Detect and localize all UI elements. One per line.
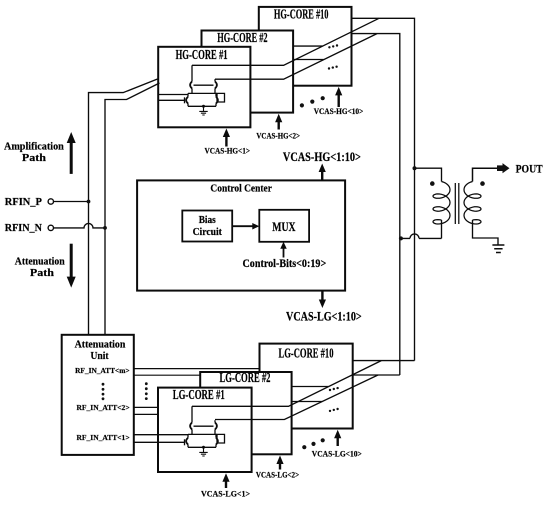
svg-text:Bias: Bias	[199, 215, 216, 226]
wire: attenuation pair m (upper)	[134, 368, 260, 370]
wire: source rail	[188, 105, 216, 107]
svg-text:VCAS-HG<1:10>: VCAS-HG<1:10>	[283, 149, 361, 164]
phase dot primary	[430, 181, 435, 186]
wire: input 2 into cell	[134, 441, 185, 443]
wire: output-1 drain stub	[191, 65, 193, 81]
svg-text:Unit: Unit	[91, 351, 110, 362]
svg-text:VCAS-LG<10>: VCAS-LG<10>	[312, 448, 362, 458]
svg-text:RFIN_N: RFIN_N	[5, 223, 43, 234]
wire: LG core2 output stub 1	[292, 386, 329, 388]
wire: RFIN_P lead	[54, 201, 89, 203]
wire: output-2 drain stub	[214, 79, 216, 81]
ground	[199, 106, 207, 115]
transistor input right	[216, 438, 218, 445]
node: primary bottom tap on bus B	[399, 236, 403, 240]
arrow: VCAS-LG<10> into core10	[337, 437, 339, 446]
LG-CORE #10 box	[260, 344, 353, 429]
ground	[199, 447, 207, 456]
ellipsis dots (HG outputs lower)	[328, 66, 338, 70]
svg-text:VCAS-LG<2>: VCAS-LG<2>	[256, 470, 299, 480]
arrow: VCAS-LG bus down from control center	[321, 291, 323, 301]
ellipsis dots (LG outputs upper)	[329, 387, 339, 391]
wire: output-2 drain stub	[214, 420, 216, 422]
wire: output-1 drain stub	[191, 406, 193, 422]
svg-text:Attenuation: Attenuation	[75, 339, 126, 350]
node: tail junction	[202, 446, 205, 449]
transistor input left	[186, 97, 188, 104]
svg-text:Circuit: Circuit	[193, 227, 223, 238]
transistor cascode right	[215, 423, 217, 430]
terminal RFIN_P	[48, 199, 53, 204]
arrow: control bits into MUX	[283, 248, 285, 258]
arrow: VCAS-HG<1> into core1	[225, 136, 227, 147]
MUX box	[259, 210, 309, 242]
node: RFIN_P junction	[87, 200, 91, 204]
svg-text:RF_IN_ATT<m>: RF_IN_ATT<m>	[75, 366, 130, 375]
wire: mid rail	[188, 92, 217, 94]
HG-CORE #1 box	[158, 47, 250, 128]
wire: HG core1 output 2 (horizontal + diagonal to bus)	[215, 34, 377, 80]
wire: HG bus B (core10 out 2, to right vertical bus)	[352, 34, 400, 375]
ellipsis dots (VCAS-LG)	[302, 438, 325, 449]
arrow: attenuation path (down)	[70, 244, 73, 278]
wire: mid rail	[188, 433, 217, 435]
transformer core	[455, 183, 459, 224]
svg-text:RF_IN_ATT<2>: RF_IN_ATT<2>	[77, 403, 130, 412]
node: RFIN_N junction	[103, 226, 107, 230]
attenuation unit box	[62, 335, 134, 455]
ellipsis dots (HG outputs upper)	[328, 44, 338, 48]
wire: LG core2 output stub 2	[292, 401, 323, 403]
arrow: VCAS-HG<2> into core2	[278, 121, 280, 129]
wire: LG core1 output 1 (horizontal + diagonal to bus)	[192, 361, 381, 407]
svg-text:VCAS-HG<1>: VCAS-HG<1>	[205, 146, 251, 156]
wire: HG core1 output 1 (horizontal + diagonal to bus)	[192, 18, 379, 65]
svg-text:POUT: POUT	[516, 163, 543, 175]
arrow: amplification path (up)	[70, 142, 73, 174]
wire: input 2 into cell	[159, 99, 185, 101]
svg-text:HG-CORE #2: HG-CORE #2	[217, 30, 267, 45]
svg-text:RF_IN_ATT<1>: RF_IN_ATT<1>	[77, 433, 130, 442]
wire: primary bottom lead with hop over bus A	[401, 220, 442, 238]
wire: HG core2 output stub 2	[293, 59, 324, 61]
wire: cascode source leads	[192, 88, 215, 93]
wire: HG bus A (core10 out 1, to right vertical bus)	[352, 18, 415, 360]
wire: RFIN_P vertical bus v1	[89, 79, 158, 335]
transistor cascode right	[215, 82, 217, 89]
svg-text:VCAS-LG<1>: VCAS-LG<1>	[201, 489, 250, 499]
ground (secondary)	[492, 245, 504, 253]
transistor cascode left	[190, 423, 192, 430]
wire: cascode gate rail	[194, 84, 214, 86]
wire: RFIN_N lead with hop over v1	[54, 223, 106, 228]
svg-text:MUX: MUX	[272, 220, 295, 234]
svg-text:LG-CORE #1: LG-CORE #1	[173, 387, 225, 402]
wire: attenuation pair m (lower)	[134, 374, 200, 376]
node: primary top tap on bus A	[413, 166, 417, 170]
wire: HG core2 output stub 1	[293, 45, 323, 47]
ellipsis dots (inside attenuation unit)	[102, 383, 105, 400]
bias circuit box U-bias	[182, 211, 232, 242]
svg-text:Path: Path	[30, 267, 54, 279]
svg-text:LG-CORE #10: LG-CORE #10	[279, 346, 334, 361]
transistor cascode left	[190, 82, 192, 89]
arrow: VCAS-HG bus up from control center	[321, 171, 323, 180]
svg-text:LG-CORE #2: LG-CORE #2	[220, 370, 271, 385]
LG-CORE #2 box	[200, 372, 291, 454]
wire: secondary top lead to POUT	[473, 168, 498, 181]
wire: source rail	[188, 446, 216, 448]
wire: secondary bottom lead	[473, 220, 499, 245]
wire: primary top lead	[415, 168, 442, 181]
gate bias rectangle	[217, 93, 225, 102]
inductor primary winding	[433, 182, 450, 225]
wire: attenuation pair 2 (lower)	[134, 413, 158, 415]
ellipsis dots (attenuation outputs)	[145, 382, 148, 400]
wire: cascode gate rail	[194, 425, 214, 427]
svg-text:Control Center: Control Center	[210, 182, 272, 194]
svg-text:HG-CORE #10: HG-CORE #10	[274, 6, 329, 21]
svg-text:Path: Path	[22, 152, 46, 164]
wire: LG bus B (core10 out 2)	[353, 374, 400, 376]
gate bias rectangle	[217, 434, 225, 443]
arrow: VCAS-LG<1> into core1	[225, 481, 227, 488]
arrow: VCAS-LG<2> into core2	[279, 463, 281, 470]
svg-text:RFIN_P: RFIN_P	[5, 197, 43, 208]
svg-text:VCAS-HG<10>: VCAS-HG<10>	[314, 106, 364, 116]
control center box	[137, 180, 345, 290]
phase dot secondary	[480, 181, 485, 186]
svg-text:VCAS-LG<1:10>: VCAS-LG<1:10>	[286, 309, 362, 324]
transistor input left	[186, 438, 188, 445]
LG-CORE #1 box	[158, 388, 252, 472]
HG-CORE #2 box	[202, 31, 294, 113]
node: tail junction	[202, 105, 205, 108]
arrow: VCAS-HG<10> into core10	[338, 94, 340, 107]
HG-CORE #10 box	[259, 7, 352, 86]
svg-text:VCAS-HG<2>: VCAS-HG<2>	[256, 130, 300, 140]
svg-text:Control-Bits<0:19>: Control-Bits<0:19>	[243, 258, 327, 270]
wire: cascode source leads	[192, 429, 215, 434]
wire: input 1 into cell	[134, 434, 188, 436]
terminal RFIN_N	[48, 225, 53, 230]
wire: attenuation pair 2 (upper)	[134, 406, 158, 408]
wire: RFIN_N vertical bus v2	[105, 83, 160, 335]
svg-text:Amplification: Amplification	[4, 141, 64, 153]
wire: input 1 into cell	[159, 94, 189, 96]
svg-text:HG-CORE #1: HG-CORE #1	[176, 47, 228, 62]
ellipsis dots (VCAS-HG)	[300, 96, 325, 107]
arrow: bias to MUX	[232, 225, 253, 227]
wire: LG bus A (core10 out 1)	[353, 360, 415, 362]
inductor secondary winding	[464, 182, 481, 225]
arrow: POUT (solid)	[497, 163, 510, 173]
wire: LG core1 output 2 (horizontal + diagonal to bus)	[215, 375, 378, 420]
transistor input right	[216, 97, 218, 104]
ellipsis dots (LG outputs lower)	[329, 408, 339, 412]
